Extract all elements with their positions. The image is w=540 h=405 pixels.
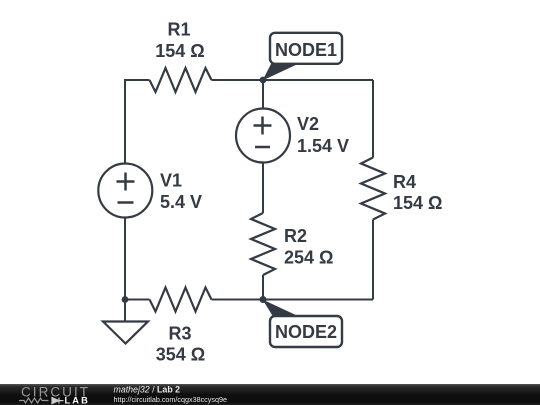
logo resistor squiggle [19, 398, 49, 403]
wire V1 bottom to bottom-left junction [124, 218, 126, 300]
resistor R4 [361, 158, 385, 220]
svg-text:V2: V2 [297, 114, 319, 134]
node junction dot NODE1 [260, 77, 267, 84]
logo diode [52, 398, 64, 404]
svg-text:1.54 V: 1.54 V [297, 136, 349, 156]
svg-text:mathej32 / Lab 2: mathej32 / Lab 2 [114, 385, 181, 395]
ground symbol triangle [103, 322, 148, 344]
node junction dot NODE2 [260, 296, 267, 303]
wire top rail (R1 right through NODE1 to right corner) [212, 79, 374, 81]
svg-text:254 Ω: 254 Ω [284, 248, 333, 268]
wire bottom rail (R3 right through NODE2 to right corner) [212, 299, 374, 301]
svg-text:R1: R1 [167, 20, 190, 40]
NODE2 label box [270, 316, 342, 347]
svg-text:R2: R2 [284, 226, 307, 246]
voltage source V1 circle [98, 164, 152, 218]
V2 minus sign [255, 146, 270, 149]
NODE2 callout wedge [263, 300, 300, 317]
resistor R3 [150, 288, 212, 312]
V2 plus sign [254, 117, 272, 135]
svg-text:NODE1: NODE1 [275, 40, 337, 60]
node junction dot ground/V1/R3 [122, 296, 129, 303]
svg-text:R3: R3 [168, 324, 191, 344]
svg-text:154 Ω: 154 Ω [393, 193, 442, 213]
svg-text:http://circuitlab.com/cqgx38cc: http://circuitlab.com/cqgx38ccysq9e [114, 395, 227, 404]
wire NODE1 to V2 top [262, 80, 264, 109]
NODE1 callout wedge [263, 63, 301, 81]
footer bar [0, 384, 540, 405]
svg-text:LAB: LAB [65, 395, 91, 405]
svg-text:354 Ω: 354 Ω [156, 345, 205, 365]
svg-text:R4: R4 [393, 172, 416, 192]
wire right rail lower (R4 bottom to bottom corner) [372, 220, 374, 300]
wire R2 bottom to NODE2 [262, 275, 264, 300]
NODE1 label box [270, 33, 342, 64]
svg-text:5.4 V: 5.4 V [160, 192, 202, 212]
V1 plus sign [117, 173, 135, 191]
svg-text:V1: V1 [160, 171, 182, 191]
V1 minus sign [118, 201, 134, 204]
svg-text:154 Ω: 154 Ω [155, 41, 204, 61]
wire bottom-left junction to R3 left [125, 299, 150, 301]
wire right rail upper (top corner to R4 top) [372, 80, 374, 158]
svg-text:NODE2: NODE2 [275, 322, 337, 342]
resistor R2 [251, 213, 275, 275]
wire left-top (V1 top to R1 left) [125, 80, 150, 164]
wire ground stub [124, 300, 126, 322]
resistor R1 [150, 68, 212, 92]
voltage source V2 circle [236, 109, 290, 163]
wire V2 bottom to R2 top [262, 163, 264, 214]
